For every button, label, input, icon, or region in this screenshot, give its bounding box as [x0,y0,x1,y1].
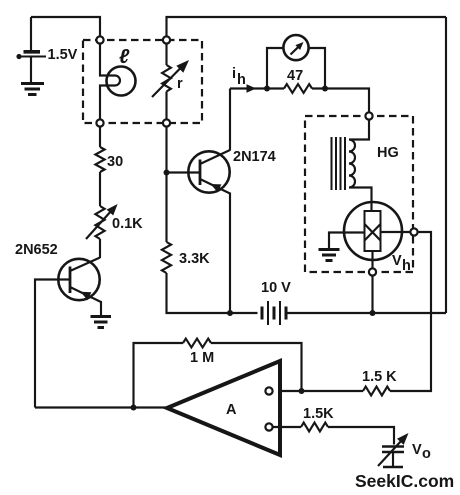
wire opamp output [35,406,167,408]
hall element rect [365,211,381,251]
hall element X [365,224,381,241]
Vo variable output element [378,433,409,467]
resistor 1M [183,339,211,348]
resistor 1.5K bottom [301,423,328,432]
wire [99,172,101,206]
wire opamp lower input [272,426,301,428]
node feedback junction [299,388,305,394]
wire ih [230,87,284,89]
feedback wire with 1M [211,343,302,391]
resistor 1.5K top [363,387,390,396]
wire 1.5K to opamp + node [272,390,363,392]
lamp L branch wire [100,44,115,76]
svg-text:47: 47 [287,68,303,84]
wire 47 to HG box [312,89,369,113]
resistor 30 [95,147,104,172]
svg-text:1.5V: 1.5V [48,47,78,63]
dashed box lamp/r unit [83,40,202,123]
svg-text:2N174: 2N174 [233,149,276,165]
node 47 right [322,86,328,92]
wire 0.1K to 2N652 collector [99,239,101,258]
node output/feedback [131,405,137,411]
svg-text:ℓ: ℓ [119,46,130,68]
wire hall left to ground [329,233,365,249]
lamp L bulb [107,67,136,96]
svg-text:1.5 K: 1.5 K [362,369,397,385]
svg-text:1 M: 1 M [190,350,214,366]
wire hall right / Vh [381,231,411,233]
svg-text:V: V [412,442,422,458]
svg-text:h: h [402,258,411,274]
resistor 3.3K [162,242,171,273]
wire meter loop [267,48,284,89]
node Vh [410,228,417,235]
svg-text:10 V: 10 V [261,280,291,296]
svg-text:0.1K: 0.1K [112,216,143,232]
arrow of r [152,67,182,98]
node hall/bottom rail [370,310,376,316]
ground (hall) [319,250,340,261]
svg-text:3.3K: 3.3K [179,251,210,267]
svg-text:h: h [237,72,246,88]
battery B1 1.5V [16,17,46,82]
ground (battery 1.5V) [21,84,44,95]
arrow of 0.1K [86,210,112,239]
node 47 left [264,86,270,92]
wire bottom rail right [288,312,447,314]
inductor coil [349,119,372,211]
svg-text:HG: HG [377,145,399,161]
transistor Q2 2N174 [167,150,231,194]
hall generator circle [344,202,402,260]
transistor Q1 2N652 [58,258,101,316]
wire 3.3K to bottom rail [167,273,258,313]
meter M1 [283,35,308,60]
svg-text:o: o [422,446,431,462]
node HG top [365,112,372,119]
variable resistor 0.1K [95,206,104,239]
lamp L filament hook [115,76,120,86]
svg-text:r: r [177,76,183,92]
wire top rail left [31,17,100,37]
node emitter/bottom rail [227,310,233,316]
svg-text:1.5K: 1.5K [303,406,334,422]
ground (2N652 emitter) [91,317,112,328]
variable resistor r [165,44,167,65]
svg-text:30: 30 [107,154,123,170]
node bottom-right of box [163,119,170,126]
inductor core [332,137,346,190]
svg-text:i: i [232,66,236,82]
wire left column below box [99,127,101,147]
wire 2N174 collector up [229,89,231,151]
arrow ih [247,84,257,92]
node top-left of box [96,36,103,43]
svg-text:A: A [226,402,237,418]
node bottom-left of box [96,119,103,126]
wire r-column down [165,127,167,242]
wire to Vo [328,427,394,445]
op-amp A [167,361,280,455]
wire right rail [445,17,447,313]
wire hall bottom [371,251,373,268]
dashed box HG unit [305,116,413,272]
svg-text:SeekIC.com: SeekIC.com [355,471,454,491]
svg-text:2N652: 2N652 [15,242,58,258]
node HG bottom [369,268,376,275]
wire 2N652 base to output bus [35,280,70,408]
wire top rail right [167,17,447,37]
battery B2 10V [262,301,286,325]
node 2N174 base junction [164,170,170,176]
node top-right of box [163,36,170,43]
resistor 47 [284,84,312,93]
wire 2N174 emitter down [229,193,231,314]
svg-text:V: V [392,253,402,269]
